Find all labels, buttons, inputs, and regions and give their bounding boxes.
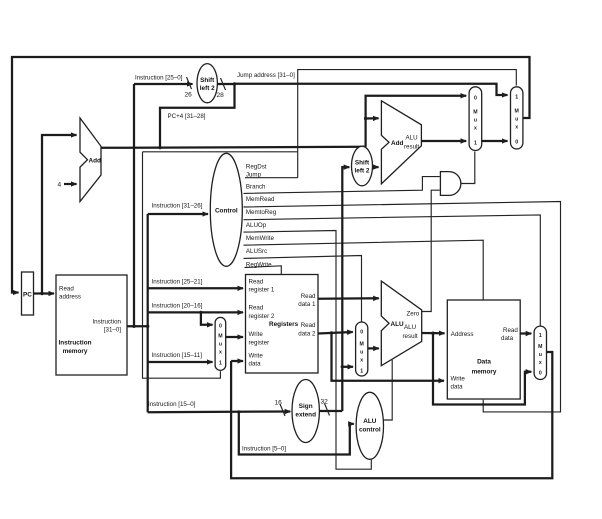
wire: PC+4 [31-28] tap up and right to jump address join <box>160 84 235 148</box>
svg-text:M: M <box>473 109 477 115</box>
wire: sign extend output to riser <box>319 404 342 416</box>
svg-text:data 1: data 1 <box>298 301 316 308</box>
adder Add (PC+4) <box>80 118 101 202</box>
svg-text:1: 1 <box>219 361 222 367</box>
node: instruction bus junction B <box>146 325 149 328</box>
mux: RegDst write register mux <box>215 317 226 370</box>
svg-text:ALU: ALU <box>363 418 377 425</box>
svg-text:left 2: left 2 <box>355 168 370 175</box>
svg-text:register 2: register 2 <box>249 313 275 320</box>
svg-text:[31–0]: [31–0] <box>104 327 121 334</box>
svg-text:Write: Write <box>249 353 264 360</box>
wire: shift left 2 output into branch adder <box>373 166 379 168</box>
wire: PC output to instruction memory read address <box>34 292 55 294</box>
wire: ALU result to data memory address <box>422 332 445 335</box>
svg-text:Instruction [20–16]: Instruction [20–16] <box>152 302 203 309</box>
svg-text:Jump address [31–0]: Jump address [31–0] <box>237 72 295 79</box>
wire: instruction [25-0] to shift left 2 <box>134 77 193 89</box>
svg-text:MemtoReg: MemtoReg <box>246 209 277 216</box>
svg-text:Address: Address <box>451 331 474 338</box>
wire: MemWrite control line to data memory top <box>244 240 484 299</box>
ALU control unit <box>356 392 383 459</box>
svg-text:Shift: Shift <box>200 77 215 84</box>
svg-text:data 2: data 2 <box>298 331 316 338</box>
svg-text:Registers: Registers <box>269 321 299 328</box>
svg-text:Instruction: Instruction <box>92 319 121 326</box>
data memory <box>447 300 520 399</box>
wire: sign extend value into ALUSrc mux input 1 <box>342 366 353 368</box>
wire: PC feedback loop from jump mux output around top and left to PC <box>12 57 530 293</box>
svg-text:data: data <box>451 383 464 390</box>
svg-text:left 2: left 2 <box>200 85 215 92</box>
shifter: shift left 2 (branch) <box>352 146 373 186</box>
mux: ALUSrc mux <box>356 322 368 376</box>
svg-text:1: 1 <box>360 369 363 375</box>
svg-text:ALUOp: ALUOp <box>246 222 267 229</box>
wire: read data 1 into ALU input 1 <box>318 297 379 300</box>
wire: branch adder result to branch mux input 1 <box>421 140 466 142</box>
mux: MemtoReg mux <box>534 326 546 379</box>
wire: Branch control line to AND gate <box>244 177 440 194</box>
svg-text:0: 0 <box>515 139 518 145</box>
node: branch adder input junction <box>364 117 367 120</box>
wire: branch mux output into jump mux input 0 <box>482 140 508 142</box>
instruction memory <box>56 275 127 375</box>
svg-text:u: u <box>219 342 222 348</box>
svg-text:1: 1 <box>539 333 542 339</box>
svg-text:28: 28 <box>217 92 225 99</box>
wire: data memory read data to MemtoReg mux input 1 <box>520 332 531 334</box>
node: PC output junction <box>40 292 43 295</box>
svg-text:Instruction: Instruction <box>58 340 91 347</box>
wire: MemtoReg control line to mux select <box>244 215 541 326</box>
wire: RegDst mux output to write register <box>226 336 243 338</box>
wire: instruction bus out of instruction memory <box>127 325 148 327</box>
svg-text:Branch: Branch <box>246 184 266 191</box>
svg-text:data: data <box>249 361 262 368</box>
wire: RegWrite control line to registers <box>245 266 282 274</box>
svg-text:ALU: ALU <box>391 321 405 328</box>
svg-text:Instruction [15–0]: Instruction [15–0] <box>148 401 196 408</box>
svg-text:M: M <box>218 334 222 340</box>
svg-text:x: x <box>515 124 518 130</box>
svg-text:0: 0 <box>539 371 542 377</box>
svg-text:Write: Write <box>249 331 264 338</box>
wire: PC value riser to Add <box>42 135 77 294</box>
svg-text:x: x <box>219 350 222 356</box>
wire: instruction [15-0] to sign extend <box>148 404 291 416</box>
svg-text:0: 0 <box>219 324 222 330</box>
svg-text:Instruction [31–26]: Instruction [31–26] <box>152 203 203 210</box>
wire: instruction [25-0] riser <box>133 84 135 326</box>
wire: RegDst top run from left bracket to vertical <box>143 151 298 153</box>
wire: jump select vertical riser <box>298 70 517 178</box>
ALU: main ALU <box>381 281 421 366</box>
svg-text:address: address <box>59 294 81 301</box>
wire: ALUOp control line down to ALU control <box>244 231 372 470</box>
node: ALU result junction <box>431 332 434 335</box>
svg-text:Read: Read <box>249 305 264 312</box>
wire: MemtoReg mux output write-back around bottom to registers write data <box>231 352 552 478</box>
wire: read data 2 into ALUSrc mux input 0 <box>318 332 353 334</box>
svg-text:x: x <box>360 358 363 364</box>
sign extender <box>292 380 319 443</box>
wire: sign-extend riser up to shift left 2 (branch) <box>342 167 349 411</box>
svg-text:Read: Read <box>503 327 518 334</box>
svg-text:M: M <box>538 344 542 350</box>
svg-text:u: u <box>474 117 477 123</box>
wire: RegDst select drop on far left down to mux bottom <box>143 152 221 378</box>
svg-text:Read: Read <box>301 293 316 300</box>
svg-text:Instruction [15–11]: Instruction [15–11] <box>152 352 203 359</box>
node: PC+4 jump-field tap junction <box>158 146 161 149</box>
svg-text:Read: Read <box>59 286 74 293</box>
wire: instruction [5-0] to ALU control <box>239 412 354 455</box>
node: instruction bus junction A <box>132 325 135 328</box>
svg-text:PC+4 [31–28]: PC+4 [31–28] <box>168 113 206 120</box>
svg-text:Read: Read <box>301 322 316 329</box>
node: ALUSrc mux input tap <box>341 365 344 368</box>
svg-text:Sign: Sign <box>299 403 313 410</box>
adder: branch target Add <box>381 101 421 184</box>
wire: PC+4 output line to riser <box>101 147 366 148</box>
svg-text:ALU: ALU <box>404 324 416 331</box>
svg-text:control: control <box>359 427 381 434</box>
svg-text:4: 4 <box>58 182 62 189</box>
wire: shift left 2 output to jump address junction <box>217 78 234 90</box>
svg-text:data: data <box>501 335 514 342</box>
wire: constant 4 into Add <box>64 183 77 185</box>
PC register <box>22 272 34 315</box>
svg-text:1: 1 <box>474 140 477 146</box>
wire: read data 2 down and right to data memory write data <box>332 333 445 381</box>
shifter: shift left 2 (jump) <box>197 64 217 103</box>
wire: instruction [31-26] into control <box>148 213 208 215</box>
mux: jump mux <box>511 87 523 149</box>
wire: ALUSrc control line to mux select <box>244 256 362 322</box>
svg-text:MemWrite: MemWrite <box>246 235 275 242</box>
svg-text:Add: Add <box>89 157 102 164</box>
svg-text:Add: Add <box>391 140 404 147</box>
wire: PC+4 into branch adder <box>366 117 379 119</box>
svg-text:0: 0 <box>360 330 363 336</box>
node: jump address junction <box>233 82 236 85</box>
wire: Jump control line <box>245 177 298 179</box>
svg-text:ALUSrc: ALUSrc <box>246 248 267 255</box>
svg-text:Jump: Jump <box>246 171 262 178</box>
svg-text:PC: PC <box>23 292 32 299</box>
svg-text:M: M <box>360 342 364 348</box>
control unit <box>210 153 242 266</box>
svg-text:M: M <box>515 108 519 114</box>
svg-text:register: register <box>249 340 270 347</box>
svg-text:Zero: Zero <box>407 310 420 317</box>
svg-text:16: 16 <box>275 400 283 407</box>
wire: ALU result wrap under data memory to MemtoReg mux input 0 <box>433 333 531 404</box>
svg-text:memory: memory <box>472 369 497 376</box>
wire: instruction riser to taps <box>147 214 149 412</box>
wire: ALUSrc mux output into ALU input 2 <box>368 347 379 349</box>
node: instruction [20-16] tap to RegDst mux <box>199 311 202 314</box>
svg-text:RegDst: RegDst <box>246 164 267 171</box>
svg-text:Instruction [25–21]: Instruction [25–21] <box>152 278 203 285</box>
svg-text:x: x <box>539 360 542 366</box>
svg-text:Write: Write <box>451 375 466 382</box>
svg-text:ALU: ALU <box>406 135 418 142</box>
wire: ALU control output to ALU <box>383 360 392 420</box>
register file <box>246 275 319 374</box>
mux: branch PCSrc mux <box>469 87 482 151</box>
svg-text:Instruction [5–0]: Instruction [5–0] <box>242 445 286 452</box>
wire: AND gate output up to branch mux select <box>461 152 475 184</box>
svg-text:Control: Control <box>215 207 238 214</box>
svg-text:Instruction [25–0]: Instruction [25–0] <box>135 75 183 82</box>
svg-text:Shift: Shift <box>355 160 370 167</box>
svg-text:result: result <box>404 144 419 151</box>
svg-text:1: 1 <box>515 94 518 100</box>
svg-text:u: u <box>539 352 542 358</box>
wire: MemRead control line around right to data memory bottom <box>244 202 561 412</box>
svg-text:Data: Data <box>477 359 491 366</box>
svg-text:register 1: register 1 <box>249 287 275 294</box>
wire: ALU zero flag to AND gate <box>422 190 440 311</box>
svg-text:u: u <box>360 350 363 356</box>
node: instruction [5-0] tap <box>237 410 240 413</box>
wire: instruction [15-11] into RegDst mux input 1 <box>148 361 213 363</box>
svg-text:memory: memory <box>63 348 88 355</box>
node: read data 2 tap to data memory write data <box>330 331 333 334</box>
wire: write-back data into registers write data <box>231 360 243 362</box>
AND gate: branch and zero <box>440 172 460 196</box>
wire: jump address [31-0] to jump mux input 1 <box>235 84 508 95</box>
wire: instruction [20-16] into RegDst mux input 0 <box>201 312 213 324</box>
wire: PC+4 riser to branch adder and branch mux <box>366 96 467 147</box>
svg-text:x: x <box>474 125 477 131</box>
svg-text:26: 26 <box>185 92 193 99</box>
svg-text:u: u <box>515 116 518 122</box>
svg-text:result: result <box>403 333 418 340</box>
wire: instruction [20-16] to read register 2 <box>148 311 243 313</box>
svg-text:Read: Read <box>249 279 264 286</box>
svg-text:extend: extend <box>295 412 316 419</box>
svg-text:0: 0 <box>474 95 477 101</box>
svg-text:MemRead: MemRead <box>246 196 275 203</box>
wire: instruction [25-21] to read register 1 <box>148 287 243 289</box>
